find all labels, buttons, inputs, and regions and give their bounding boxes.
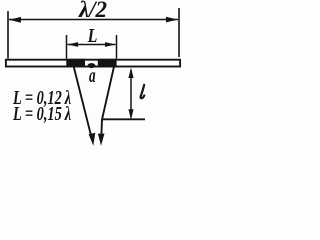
dimension L: dimension line (68, 44, 116, 46)
centre feed dot (88, 63, 96, 68)
label l (141, 85, 145, 98)
left clamp (filled segment) (66, 59, 85, 68)
dimension lambda/2: right arrowhead (166, 17, 178, 23)
svg-text:a: a (89, 63, 96, 87)
left wire arrowhead (89, 133, 96, 146)
right clamp (filled segment) (98, 59, 117, 68)
dimension lambda/2: right extension line (178, 8, 180, 57)
svg-text:L = 0,15 λ: L = 0,15 λ (12, 102, 71, 125)
dimension L: right extension tick (116, 35, 118, 59)
dimension lambda/2: left arrowhead (9, 17, 21, 23)
dimension lambda/2: dimension line (9, 19, 178, 21)
dimension l: top arrowhead (128, 68, 133, 78)
dimension l: vertical line (130, 70, 132, 118)
svg-text:L: L (87, 24, 98, 46)
dimension L: left extension tick (66, 35, 68, 59)
baseline of matching section (102, 118, 145, 120)
dimension L: right arrowhead (105, 42, 116, 47)
left delta-match wire (74, 67, 92, 137)
dimension L: left arrowhead (68, 42, 79, 47)
dimension lambda/2: left extension line (7, 11, 9, 59)
svg-text:λ/2: λ/2 (78, 0, 107, 22)
dipole bar (half-wave element) (6, 60, 180, 67)
paper background (0, 0, 195, 151)
right delta-match wire (101, 67, 114, 137)
right wire arrowhead (98, 134, 105, 146)
dimension l: bottom arrowhead (128, 109, 133, 119)
